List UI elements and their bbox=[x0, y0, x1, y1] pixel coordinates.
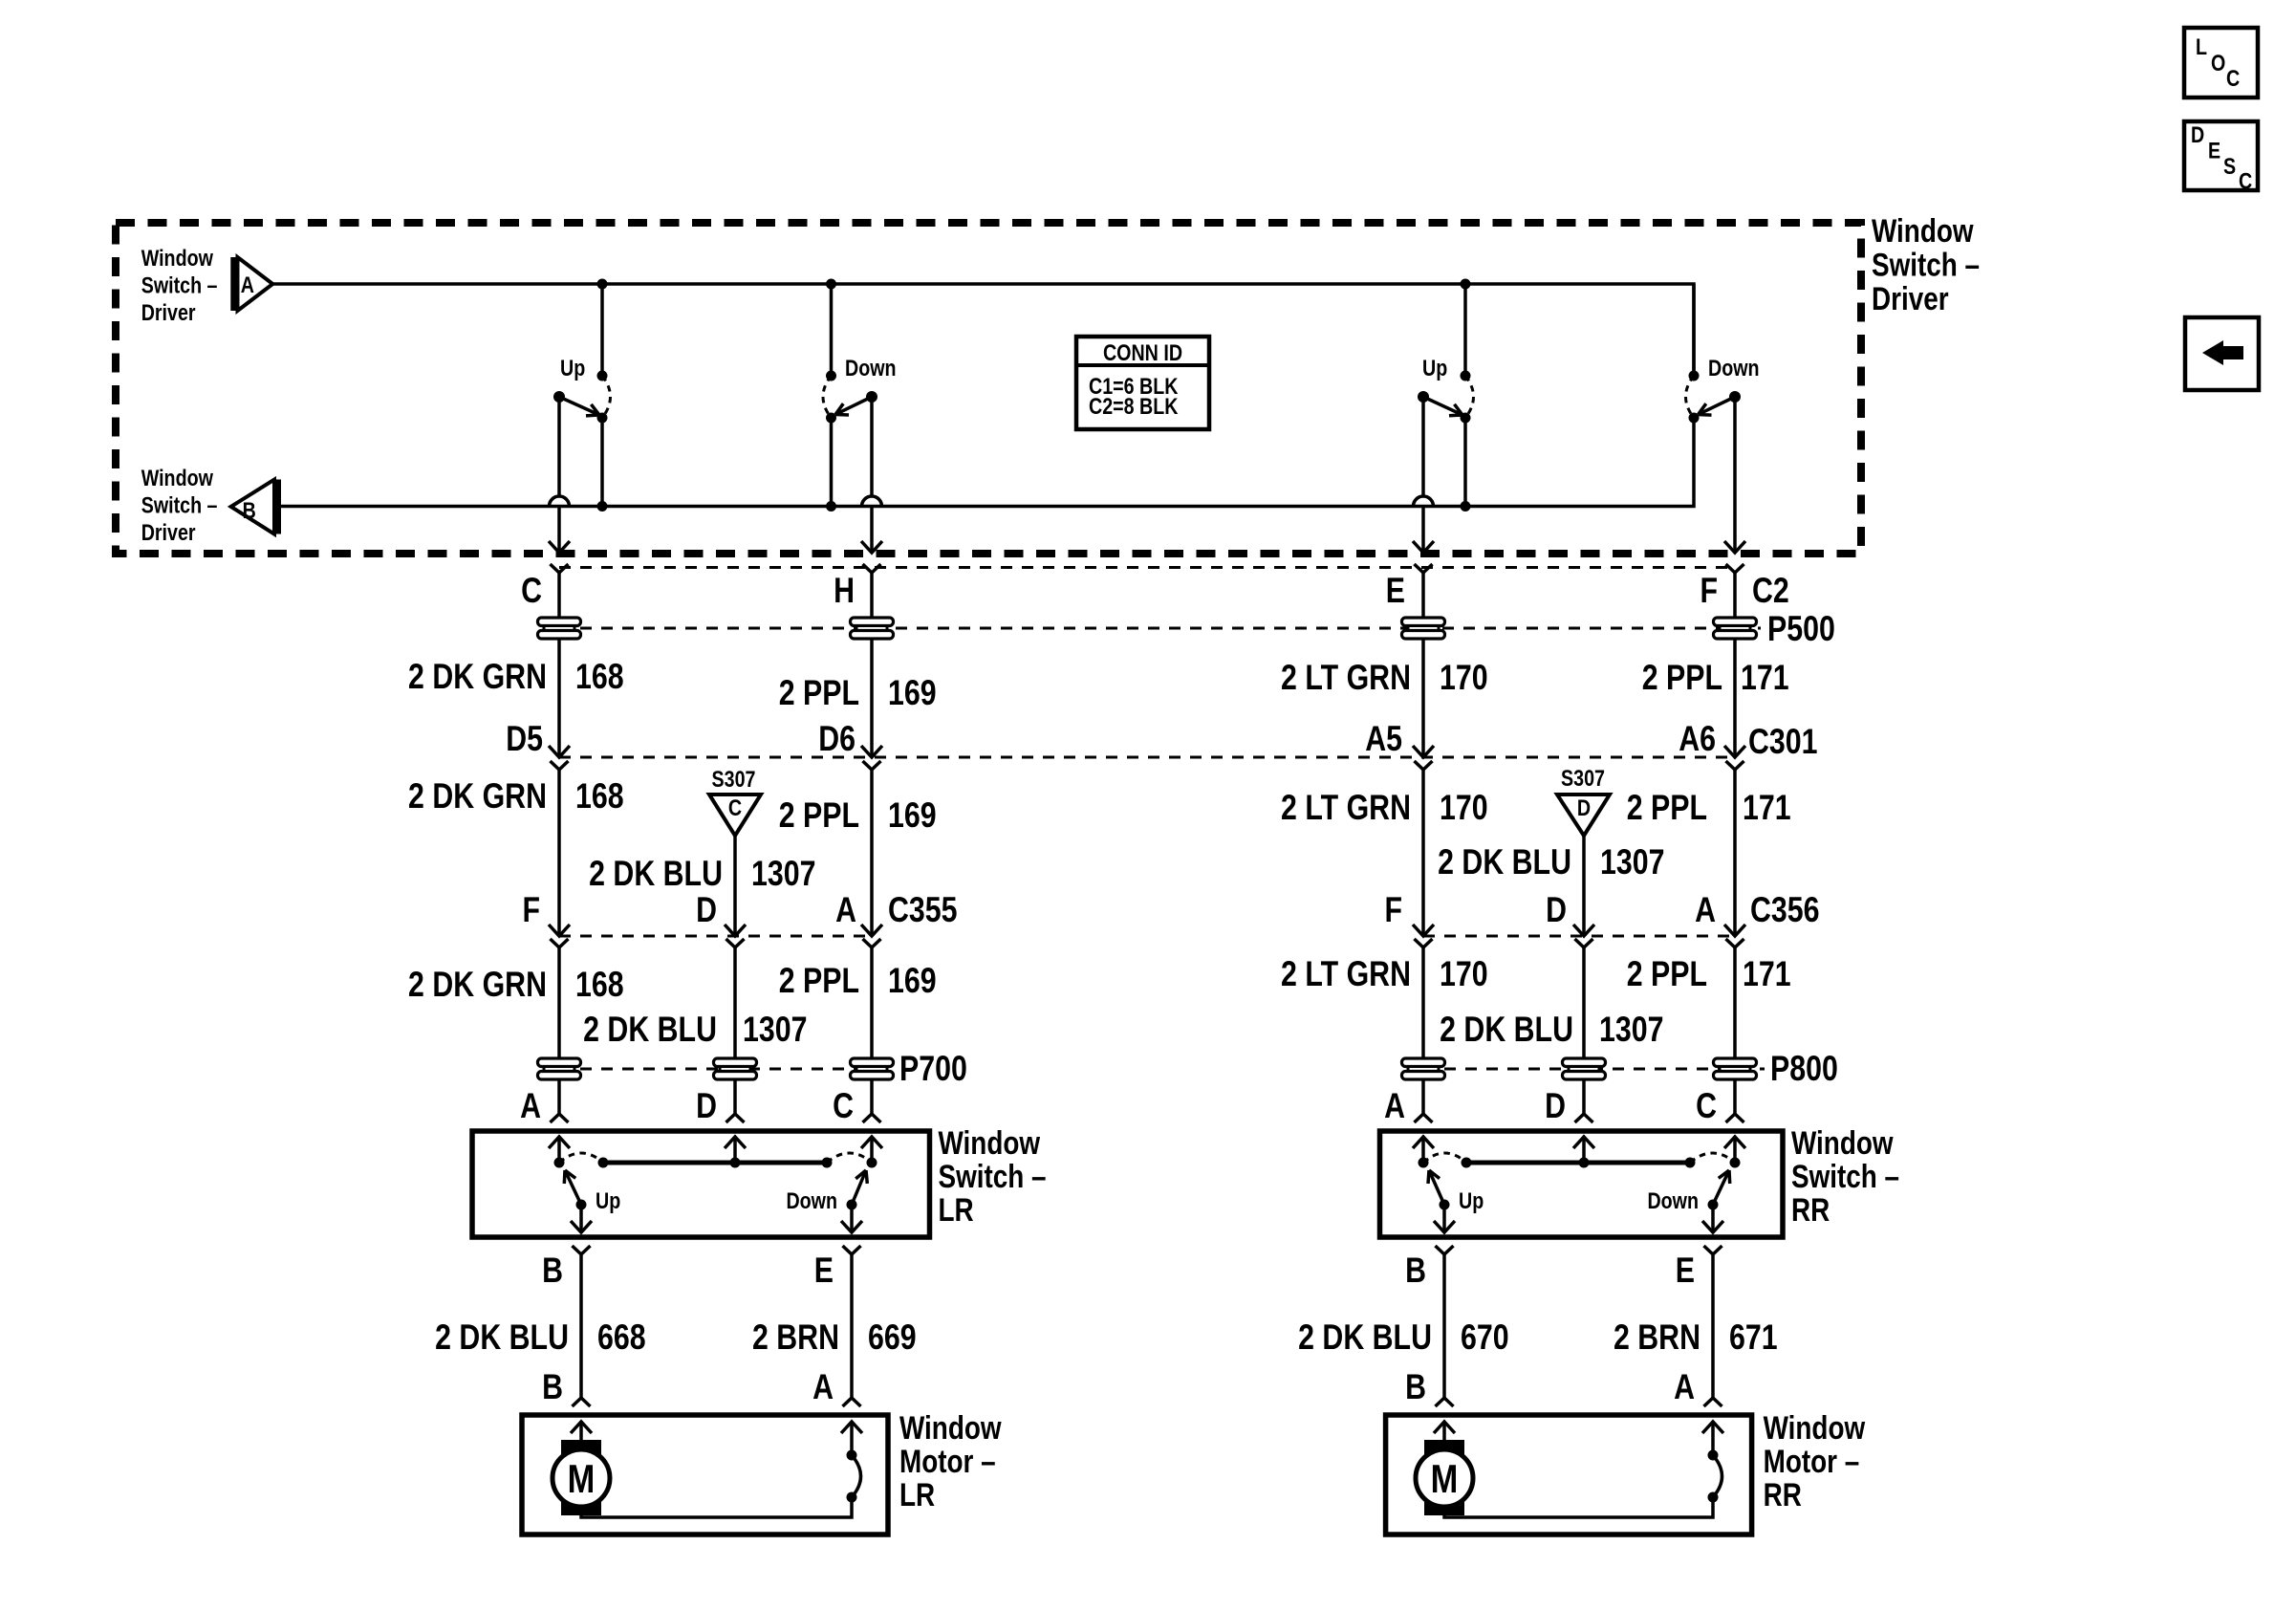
svg-text:M: M bbox=[568, 1457, 596, 1502]
svg-text:1307: 1307 bbox=[751, 854, 815, 894]
svg-text:Switch –: Switch – bbox=[1872, 247, 1980, 283]
svg-text:Switch –: Switch – bbox=[141, 272, 218, 297]
svg-text:RR: RR bbox=[1764, 1476, 1802, 1513]
svg-text:E: E bbox=[1386, 571, 1405, 611]
svg-text:1307: 1307 bbox=[1599, 1010, 1663, 1050]
svg-text:D6: D6 bbox=[818, 719, 856, 759]
svg-text:168: 168 bbox=[575, 776, 624, 816]
svg-text:671: 671 bbox=[1729, 1317, 1778, 1358]
svg-text:Window: Window bbox=[899, 1409, 1002, 1446]
svg-text:B: B bbox=[1405, 1367, 1426, 1407]
svg-text:E: E bbox=[814, 1251, 834, 1291]
svg-text:H: H bbox=[834, 571, 855, 611]
svg-text:1307: 1307 bbox=[743, 1010, 807, 1050]
svg-text:C: C bbox=[2239, 168, 2252, 194]
svg-text:M: M bbox=[1431, 1457, 1459, 1502]
svg-text:B: B bbox=[1405, 1251, 1426, 1291]
svg-text:F: F bbox=[522, 890, 540, 930]
svg-text:Window: Window bbox=[141, 245, 214, 271]
svg-text:Down: Down bbox=[845, 355, 897, 381]
svg-text:Driver: Driver bbox=[1872, 280, 1949, 316]
svg-text:2 PPL: 2 PPL bbox=[1627, 954, 1707, 994]
svg-text:LR: LR bbox=[939, 1191, 974, 1228]
svg-text:A: A bbox=[520, 1086, 541, 1126]
svg-text:A: A bbox=[1695, 890, 1716, 930]
svg-text:A: A bbox=[241, 272, 254, 297]
svg-text:P700: P700 bbox=[899, 1049, 967, 1089]
svg-text:A: A bbox=[1674, 1367, 1695, 1407]
svg-text:1307: 1307 bbox=[1600, 842, 1664, 882]
svg-text:RR: RR bbox=[1791, 1191, 1830, 1228]
svg-text:2 DK BLU: 2 DK BLU bbox=[583, 1010, 717, 1050]
svg-text:2 LT GRN: 2 LT GRN bbox=[1281, 954, 1411, 994]
svg-text:B: B bbox=[542, 1367, 563, 1407]
svg-text:A6: A6 bbox=[1679, 719, 1716, 759]
svg-text:2 BRN: 2 BRN bbox=[1614, 1317, 1700, 1358]
svg-text:B: B bbox=[542, 1251, 563, 1291]
svg-text:E: E bbox=[2208, 138, 2220, 163]
svg-text:C: C bbox=[833, 1086, 854, 1126]
svg-text:A: A bbox=[835, 890, 856, 930]
svg-text:D: D bbox=[1545, 1086, 1566, 1126]
svg-text:F: F bbox=[1700, 571, 1718, 611]
svg-text:S: S bbox=[2223, 153, 2236, 179]
svg-text:170: 170 bbox=[1440, 658, 1488, 698]
svg-text:S307: S307 bbox=[1561, 765, 1605, 791]
svg-text:669: 669 bbox=[868, 1317, 917, 1358]
svg-text:2 DK BLU: 2 DK BLU bbox=[1438, 842, 1571, 882]
svg-text:D: D bbox=[2191, 121, 2204, 147]
svg-text:C: C bbox=[1696, 1086, 1717, 1126]
svg-text:Down: Down bbox=[1708, 355, 1760, 381]
svg-text:2 BRN: 2 BRN bbox=[752, 1317, 839, 1358]
svg-text:2 DK BLU: 2 DK BLU bbox=[1440, 1010, 1573, 1050]
svg-text:Switch –: Switch – bbox=[939, 1158, 1047, 1194]
svg-text:A5: A5 bbox=[1365, 719, 1402, 759]
svg-text:2 DK GRN: 2 DK GRN bbox=[408, 965, 547, 1005]
svg-text:Switch –: Switch – bbox=[141, 492, 218, 518]
svg-text:168: 168 bbox=[575, 657, 624, 697]
svg-text:171: 171 bbox=[1743, 954, 1791, 994]
svg-text:Down: Down bbox=[786, 1187, 837, 1213]
svg-text:2 PPL: 2 PPL bbox=[779, 795, 859, 836]
svg-text:A: A bbox=[812, 1367, 834, 1407]
svg-text:Window: Window bbox=[141, 465, 214, 490]
svg-text:168: 168 bbox=[575, 965, 624, 1005]
svg-text:Up: Up bbox=[560, 355, 585, 381]
svg-text:C2: C2 bbox=[1752, 571, 1789, 611]
svg-text:P500: P500 bbox=[1767, 609, 1835, 649]
svg-text:2 PPL: 2 PPL bbox=[779, 961, 859, 1001]
svg-text:2 DK GRN: 2 DK GRN bbox=[408, 657, 547, 697]
svg-text:F: F bbox=[1384, 890, 1402, 930]
svg-text:2 PPL: 2 PPL bbox=[1642, 658, 1722, 698]
svg-text:Window: Window bbox=[1791, 1124, 1894, 1161]
svg-text:C: C bbox=[2226, 65, 2240, 91]
svg-text:Window: Window bbox=[1872, 212, 1974, 249]
svg-text:D: D bbox=[1577, 795, 1591, 820]
svg-text:C: C bbox=[521, 571, 542, 611]
svg-text:668: 668 bbox=[597, 1317, 646, 1358]
svg-text:O: O bbox=[2211, 50, 2225, 76]
svg-text:Driver: Driver bbox=[141, 519, 196, 545]
svg-text:L: L bbox=[2196, 33, 2207, 59]
svg-text:Down: Down bbox=[1647, 1187, 1699, 1213]
svg-text:2 LT GRN: 2 LT GRN bbox=[1281, 788, 1411, 828]
svg-text:Window: Window bbox=[939, 1124, 1041, 1161]
svg-text:S307: S307 bbox=[712, 766, 756, 792]
svg-text:169: 169 bbox=[888, 795, 937, 836]
svg-text:D: D bbox=[1546, 890, 1567, 930]
svg-text:LR: LR bbox=[899, 1476, 935, 1513]
svg-text:171: 171 bbox=[1741, 658, 1789, 698]
svg-text:2 PPL: 2 PPL bbox=[1627, 788, 1707, 828]
svg-text:Window: Window bbox=[1764, 1409, 1866, 1446]
svg-text:Up: Up bbox=[1422, 355, 1447, 381]
svg-text:Driver: Driver bbox=[141, 299, 196, 325]
svg-text:2 LT GRN: 2 LT GRN bbox=[1281, 658, 1411, 698]
svg-text:C: C bbox=[728, 795, 742, 820]
svg-text:Motor –: Motor – bbox=[1764, 1443, 1860, 1479]
svg-text:169: 169 bbox=[888, 673, 937, 713]
svg-text:B: B bbox=[243, 497, 256, 523]
svg-text:670: 670 bbox=[1461, 1317, 1509, 1358]
svg-text:D: D bbox=[696, 1086, 717, 1126]
svg-text:A: A bbox=[1384, 1086, 1405, 1126]
svg-text:2 PPL: 2 PPL bbox=[779, 673, 859, 713]
svg-text:P800: P800 bbox=[1770, 1049, 1838, 1089]
svg-text:D5: D5 bbox=[506, 719, 543, 759]
svg-text:170: 170 bbox=[1440, 788, 1488, 828]
svg-text:C2=8 BLK: C2=8 BLK bbox=[1089, 393, 1179, 419]
svg-text:169: 169 bbox=[888, 961, 937, 1001]
svg-text:170: 170 bbox=[1440, 954, 1488, 994]
svg-text:171: 171 bbox=[1743, 788, 1791, 828]
svg-text:CONN ID: CONN ID bbox=[1103, 339, 1182, 365]
svg-text:Switch –: Switch – bbox=[1791, 1158, 1899, 1194]
svg-text:C301: C301 bbox=[1748, 722, 1818, 762]
svg-text:E: E bbox=[1676, 1251, 1695, 1291]
svg-text:2 DK GRN: 2 DK GRN bbox=[408, 776, 547, 816]
svg-text:2 DK BLU: 2 DK BLU bbox=[1298, 1317, 1432, 1358]
svg-text:2 DK BLU: 2 DK BLU bbox=[435, 1317, 569, 1358]
svg-text:D: D bbox=[696, 890, 717, 930]
svg-text:C356: C356 bbox=[1750, 890, 1820, 930]
svg-text:Up: Up bbox=[1459, 1187, 1484, 1213]
svg-text:Up: Up bbox=[596, 1187, 620, 1213]
svg-text:2 DK BLU: 2 DK BLU bbox=[589, 854, 723, 894]
svg-text:C355: C355 bbox=[888, 890, 958, 930]
svg-text:Motor –: Motor – bbox=[899, 1443, 996, 1479]
